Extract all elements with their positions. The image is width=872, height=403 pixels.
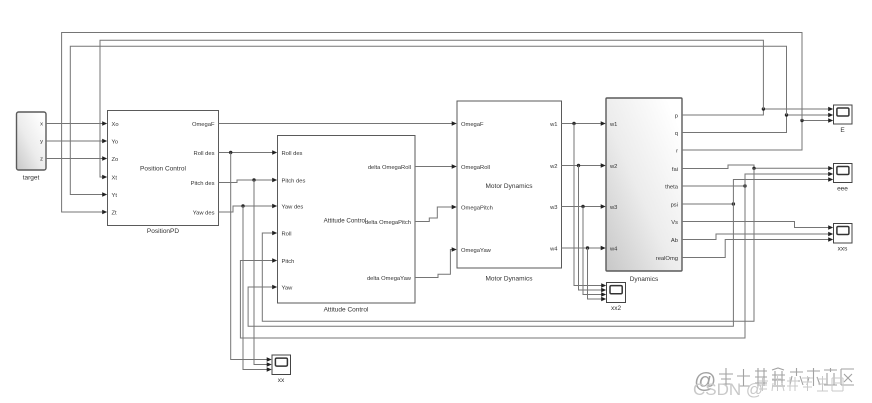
scope eee: [834, 164, 853, 193]
svg-text:PositionPD: PositionPD: [147, 228, 179, 235]
svg-text:Yt: Yt: [112, 193, 118, 199]
svg-text:Yo: Yo: [112, 139, 119, 145]
wire net q (to scope E and feedback to Yt): [70, 46, 833, 197]
svg-text:OmegaYaw: OmegaYaw: [461, 248, 492, 254]
svg-text:z: z: [40, 157, 43, 163]
scope E: [834, 105, 853, 134]
wire net Roll des (to Attitude and xx scope): [219, 150, 278, 362]
svg-text:r: r: [676, 148, 678, 154]
svg-text:w4: w4: [609, 246, 618, 252]
wire net Pitch des (to Attitude and xx scope): [219, 178, 278, 367]
svg-text:xx2: xx2: [611, 305, 622, 312]
svg-text:x: x: [40, 122, 43, 128]
wire net w4 (to Dynamics and xx2): [562, 246, 607, 302]
svg-text:Pitch: Pitch: [282, 259, 295, 265]
svg-text:Yaw des: Yaw des: [282, 204, 304, 210]
svg-text:CSDN @: CSDN @: [693, 380, 763, 399]
wire realOmg to xxs: [682, 237, 833, 257]
svg-text:w3: w3: [609, 205, 617, 211]
wire Vs to xxs: [682, 222, 833, 230]
svg-text:Position Control: Position Control: [140, 166, 186, 173]
svg-text:w1: w1: [549, 122, 557, 128]
block Position Control (PositionPD): [108, 111, 219, 236]
wire target x to Xo: [46, 121, 107, 126]
svg-text:q: q: [675, 131, 678, 137]
wire Ab to xxs: [682, 232, 833, 240]
wire OmegaF to Motor Dynamics: [219, 121, 457, 126]
block Motor Dynamics: [457, 101, 562, 283]
watermark row 2: [693, 376, 843, 399]
svg-text:Attitude Control: Attitude Control: [324, 307, 369, 314]
svg-text:Ab: Ab: [671, 238, 678, 244]
svg-text:w2: w2: [549, 164, 557, 170]
svg-text:delta OmegaRoll: delta OmegaRoll: [368, 165, 411, 171]
svg-text:w2: w2: [609, 164, 617, 170]
svg-text:Roll: Roll: [282, 231, 292, 237]
svg-text:psi: psi: [671, 202, 678, 208]
wire delta OmegaRoll to OmegaRoll: [415, 164, 457, 169]
svg-text:p: p: [675, 113, 678, 119]
svg-text:w1: w1: [609, 122, 617, 128]
wire net p (to scope E and feedback to Xt): [100, 40, 833, 179]
wire target z to Zo: [46, 156, 107, 161]
wire delta OmegaYaw to OmegaYaw: [415, 247, 457, 277]
svg-text:Motor Dynamics: Motor Dynamics: [486, 276, 534, 283]
block Attitude Control: [278, 136, 416, 314]
svg-text:E: E: [840, 127, 845, 134]
svg-text:Xt: Xt: [112, 175, 118, 181]
svg-text:eee: eee: [837, 186, 848, 193]
svg-text:Attitude Control: Attitude Control: [324, 217, 367, 224]
svg-text:OmegaF: OmegaF: [461, 122, 484, 128]
block target: [17, 112, 47, 182]
scope xx: [272, 355, 291, 384]
svg-text:Pitch des: Pitch des: [282, 178, 306, 184]
svg-text:delta OmegaPitch: delta OmegaPitch: [365, 220, 411, 226]
svg-text:Pitch des: Pitch des: [191, 181, 215, 187]
svg-text:OmegaF: OmegaF: [192, 122, 215, 128]
svg-text:Zt: Zt: [112, 210, 118, 216]
wire net fai (to scope eee and feedback to Roll): [262, 165, 833, 321]
svg-text:fai: fai: [672, 167, 678, 173]
wire net w1 (to Dynamics and xx2): [562, 121, 607, 288]
svg-text:Roll des: Roll des: [282, 151, 303, 157]
svg-text:Dynamics: Dynamics: [630, 276, 659, 283]
wire target y to Yo: [46, 139, 107, 144]
watermark row 1: [694, 368, 854, 393]
scope xxs: [834, 224, 853, 253]
svg-text:xxs: xxs: [838, 246, 849, 253]
svg-text:Vs: Vs: [671, 220, 678, 226]
wire net theta (to scope eee and feedback to Pitch): [240, 172, 833, 338]
svg-text:w4: w4: [549, 246, 558, 252]
svg-text:Yaw: Yaw: [282, 285, 294, 291]
svg-text:y: y: [40, 139, 43, 145]
svg-text:theta: theta: [665, 184, 679, 190]
svg-text:Xo: Xo: [112, 122, 119, 128]
svg-text:Zo: Zo: [112, 157, 119, 163]
wire net w3 (to Dynamics and xx2): [562, 204, 607, 297]
scope xx2: [607, 283, 626, 313]
block Dynamics: [606, 98, 682, 283]
wire net psi (to scope eee and feedback to Yaw): [248, 177, 833, 326]
svg-text:Roll des: Roll des: [194, 151, 215, 157]
svg-text:delta OmegaYaw: delta OmegaYaw: [367, 276, 412, 282]
svg-text:xx: xx: [278, 377, 285, 384]
svg-text:Motor Dynamics: Motor Dynamics: [486, 183, 534, 190]
svg-text:OmegaRoll: OmegaRoll: [461, 165, 490, 171]
svg-text:w3: w3: [549, 205, 557, 211]
svg-text:OmegaPitch: OmegaPitch: [461, 205, 493, 211]
wire net r (to scope E and feedback to Zt): [62, 33, 834, 215]
wire net Yaw des (to Attitude and xx scope): [219, 204, 278, 372]
svg-text:Yaw des: Yaw des: [193, 210, 215, 216]
wire delta OmegaPitch to OmegaPitch: [415, 205, 457, 222]
svg-text:target: target: [23, 175, 40, 182]
wire net w2 (to Dynamics and xx2): [562, 163, 607, 292]
svg-text:realOmg: realOmg: [656, 256, 678, 262]
